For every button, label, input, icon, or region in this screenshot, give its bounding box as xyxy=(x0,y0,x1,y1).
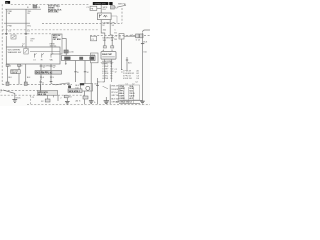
washer pin text column xyxy=(115,30,117,41)
switch box label xyxy=(8,49,23,53)
dashed enclosure right border xyxy=(121,8,123,23)
legend text right mid column xyxy=(102,60,113,80)
dashed boundary bottom xyxy=(1,90,38,92)
svg-text:BLK: BLK xyxy=(95,84,99,86)
wire label relay2 xyxy=(112,23,117,27)
wire mid col 2 xyxy=(97,78,99,104)
connector tick sw1 xyxy=(40,65,50,69)
connector tick B xyxy=(25,33,28,35)
svg-text:C1: C1 xyxy=(125,84,127,86)
wiper motor internal 1 xyxy=(64,57,70,60)
ground right mid xyxy=(104,97,109,104)
wire arc to motor connector xyxy=(50,80,69,88)
black header bar small box xyxy=(109,2,112,5)
svg-text:E2: E2 xyxy=(115,33,117,35)
right ground xyxy=(140,101,144,104)
right legend marks xyxy=(121,70,123,72)
svg-text:C3: C3 xyxy=(32,97,34,99)
wire label right xyxy=(143,41,147,53)
bottom right table xyxy=(118,87,140,104)
wire from big box bottom 2 xyxy=(18,64,20,85)
svg-text:BLK 150: BLK 150 xyxy=(38,94,47,96)
bottom right table text xyxy=(116,85,135,104)
svg-text:B3: B3 xyxy=(115,39,117,41)
mid col 2 tick xyxy=(95,84,99,86)
relay label text xyxy=(103,7,108,11)
svg-text:BLK 150: BLK 150 xyxy=(111,98,118,100)
svg-text:BLK: BLK xyxy=(143,41,147,43)
svg-text:SW NC: SW NC xyxy=(50,46,57,48)
switch contact 1 xyxy=(33,53,36,61)
wire labels lower left xyxy=(8,77,31,79)
wire down from motor 3 xyxy=(84,61,86,84)
svg-text:RLY: RLY xyxy=(103,9,107,11)
connector label box right xyxy=(110,6,118,10)
wire right inner xyxy=(121,39,123,70)
splice S206 xyxy=(64,95,72,98)
upper small box B1 xyxy=(52,34,62,54)
motor wire tick 2 xyxy=(84,72,89,74)
connector label mid-left xyxy=(22,43,25,47)
wire right horizontal xyxy=(124,35,136,37)
connector tick right xyxy=(141,43,144,45)
wire left vertical A xyxy=(5,9,7,47)
wire mid col 1 end xyxy=(89,101,96,104)
fuse label block HOT AT ALL TIMES xyxy=(48,4,62,13)
dashed enclosure left border xyxy=(1,4,3,84)
fuse bus wire top xyxy=(5,8,41,10)
left wire end connector 2 xyxy=(24,82,27,85)
wire right col xyxy=(126,57,128,70)
splice S205 xyxy=(41,95,50,103)
connector C1 box xyxy=(91,36,97,41)
wire from big box bottom 3 xyxy=(25,64,27,84)
component box right edge xyxy=(119,34,124,39)
switch inline component box xyxy=(11,35,16,39)
relay feed wire xyxy=(97,5,101,13)
wire down from switch 1 xyxy=(40,64,42,71)
svg-text:94: 94 xyxy=(53,67,55,69)
lower label band 2 xyxy=(38,91,58,96)
svg-text:D4: D4 xyxy=(137,78,139,80)
connector C240 on wire xyxy=(64,50,74,54)
wire to lower band xyxy=(39,80,44,91)
wire below band 1 xyxy=(40,74,45,80)
dashed enclosure bottom border segment xyxy=(42,22,122,24)
washer pump name label xyxy=(101,62,114,64)
wire label left of B1 xyxy=(30,38,35,42)
wire down from motor 1 xyxy=(65,61,67,66)
connector arrow label top xyxy=(27,5,41,9)
svg-text:WIPER SYS: WIPER SYS xyxy=(95,3,107,5)
switch contact 2 xyxy=(41,53,44,61)
dashed boundary mid xyxy=(2,33,52,35)
switch contact 3 xyxy=(50,53,54,61)
left edge text low xyxy=(0,89,2,93)
svg-text:6 ORN: 6 ORN xyxy=(119,98,125,100)
wire below band 2 xyxy=(50,74,55,80)
washer pump box M2 xyxy=(101,52,116,83)
diagonal wire low xyxy=(53,95,55,97)
bottom mid text xyxy=(60,82,105,103)
left wire end connector 1 xyxy=(6,82,9,85)
svg-text:PPL 94: PPL 94 xyxy=(111,92,117,94)
switch box text block xyxy=(50,42,57,47)
svg-text:WASHER SW: WASHER SW xyxy=(8,51,23,54)
svg-text:C1: C1 xyxy=(115,36,117,38)
B1 text xyxy=(53,35,62,41)
svg-text:C1: C1 xyxy=(86,7,88,9)
bottom right table frame xyxy=(118,85,139,100)
wiper motor feed wire xyxy=(62,39,66,56)
ground G305 xyxy=(12,97,21,102)
wire label wash1 xyxy=(103,30,107,32)
dashed boundary mid short xyxy=(2,29,98,31)
right bus vertical xyxy=(109,85,111,105)
black header bar xyxy=(93,2,109,5)
dashed boundary bottom-most xyxy=(27,103,150,105)
multifunction switch box xyxy=(6,47,60,64)
wire mid low 1 xyxy=(39,84,41,93)
label box on wire xyxy=(11,70,21,75)
label band instrument xyxy=(35,71,62,75)
washer connector pin 1 xyxy=(103,46,106,48)
wiper motor internal 4 xyxy=(90,57,95,60)
dashed boundary right mid xyxy=(90,35,150,37)
leader line xyxy=(103,86,108,89)
svg-text:H PNK: H PNK xyxy=(102,78,109,80)
small box below motor xyxy=(83,96,88,99)
switch internal divider xyxy=(30,51,60,53)
wire mid col 1 xyxy=(90,63,92,101)
right legend block xyxy=(123,70,139,80)
connector blob on motor wire xyxy=(68,86,71,89)
svg-text:CKT BRK: CKT BRK xyxy=(53,39,62,41)
wiper motor box xyxy=(62,56,96,61)
relay bar sub text xyxy=(86,7,88,9)
svg-text:W: W xyxy=(87,72,89,74)
relay output wire 1 xyxy=(101,20,105,46)
ground mid xyxy=(65,98,70,104)
svg-text:PNK: PNK xyxy=(8,26,13,28)
wiper motor internal 3 xyxy=(79,57,83,60)
right bus text rows xyxy=(111,86,120,104)
relay feed box xyxy=(90,6,97,10)
component box lower mid 2 motor xyxy=(80,83,93,91)
right edge feed wire xyxy=(143,30,151,33)
wire left vertical B xyxy=(25,9,27,48)
motor wire tick 1 xyxy=(74,72,79,74)
connector box bb1 xyxy=(6,64,12,67)
wire top right small xyxy=(115,7,139,84)
wire down from motor 2 xyxy=(75,61,77,83)
svg-text:SEE PG: SEE PG xyxy=(118,4,126,6)
svg-text:WSW PMP: WSW PMP xyxy=(102,54,113,56)
svg-text:2: 2 xyxy=(0,91,1,93)
svg-text:C2: C2 xyxy=(132,84,134,86)
svg-text:G305: G305 xyxy=(16,97,22,99)
svg-text:92: 92 xyxy=(43,67,45,69)
washer connector pin 2 xyxy=(111,46,114,48)
inline connector right xyxy=(131,34,143,42)
wire below motor box xyxy=(83,91,85,96)
svg-text:39: 39 xyxy=(110,78,112,80)
label band 3 xyxy=(68,89,82,93)
svg-text:PNK 39: PNK 39 xyxy=(111,86,118,88)
svg-text:12: 12 xyxy=(115,71,117,73)
motor side box xyxy=(91,53,99,63)
dashed boundary lower xyxy=(2,84,72,86)
page tag label top-left xyxy=(5,1,10,4)
dashed enclosure top border xyxy=(11,3,90,5)
vertical wire 58 low xyxy=(57,95,59,101)
relay output wire 2 xyxy=(110,20,112,46)
switch internal component xyxy=(24,48,28,54)
svg-text:D 14: D 14 xyxy=(136,40,140,42)
connector box bb2 xyxy=(18,64,24,67)
svg-text:G201 BLK 150 C2: G201 BLK 150 C2 xyxy=(116,102,132,104)
connector tick A xyxy=(5,33,8,35)
relay box U1 xyxy=(98,13,112,20)
svg-text:SW: SW xyxy=(91,57,94,59)
svg-text:DKGRN PPL 92: DKGRN PPL 92 xyxy=(36,73,53,75)
svg-text:5: 5 xyxy=(115,30,116,32)
left box bottom bus xyxy=(4,22,30,24)
relay side wire xyxy=(111,16,117,23)
svg-text:G305 A: G305 A xyxy=(11,71,18,74)
wire from big box bottom 1 xyxy=(7,64,9,84)
ground wire diagonal xyxy=(3,90,15,99)
text rows right of wire1 xyxy=(75,85,79,89)
washer connector labels xyxy=(91,38,115,52)
wire down from switch 2 xyxy=(50,64,52,71)
svg-text:WPR MTR C: WPR MTR C xyxy=(69,91,81,93)
right bottom bus xyxy=(120,99,143,101)
wire label relay1 xyxy=(102,23,110,27)
table top labels xyxy=(125,84,134,86)
connector tick sw2 xyxy=(50,65,57,69)
dashed vertical corner segment xyxy=(30,96,32,105)
off page arrow top right xyxy=(117,4,126,8)
svg-text:4 BLK 150: 4 BLK 150 xyxy=(123,78,132,80)
wire right vertical long xyxy=(142,33,144,101)
